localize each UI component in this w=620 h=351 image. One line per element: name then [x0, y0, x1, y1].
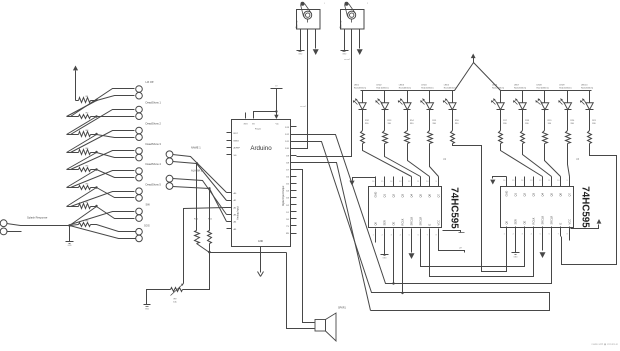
wire 5V to Vin supply bracket	[254, 112, 277, 119]
svg-text:LED2: LED2	[376, 85, 382, 87]
svg-text:E: E	[427, 224, 431, 226]
svg-text:4: 4	[400, 235, 401, 237]
svg-text:Q5: Q5	[418, 193, 422, 197]
U3 bottom pin 8	[569, 227, 571, 237]
svg-text:3: 3	[522, 234, 523, 236]
wire node 5 to switch 5	[97, 170, 135, 178]
servo SERVO1 GND wire	[300, 29, 302, 51]
svg-text:9: 9	[436, 181, 437, 183]
ground arduino GND arrow	[258, 272, 261, 277]
U3 pin8 stub	[569, 237, 571, 241]
wire R11 bottom to junction	[209, 244, 211, 253]
svg-text:NAME 1: NAME 1	[191, 146, 201, 150]
svg-text:Q7: Q7	[436, 193, 440, 197]
wire chain row 1 to row 2	[67, 101, 97, 117]
svg-text:GND: GND	[504, 191, 508, 197]
wire speaker feed from ground bus	[287, 253, 315, 329]
wire ground bus to speaker branch	[210, 252, 287, 254]
svg-text:16: 16	[503, 180, 505, 182]
wire chain row 6 to row 7	[67, 188, 97, 207]
wire node 3 to switch 3	[97, 135, 135, 138]
resistor R7 (ladder row 7)	[79, 204, 91, 209]
svg-text:Lift Off: Lift Off	[146, 80, 154, 84]
wire / node row 3	[91, 134, 97, 136]
svg-text:LED7: LED7	[514, 85, 520, 87]
svg-text:GND: GND	[373, 192, 377, 198]
wire LED5 to resistor	[452, 110, 454, 131]
LED2 diode	[384, 91, 386, 103]
svg-text:Analog Input: Analog Input	[237, 206, 240, 220]
connector switch pair SW	[136, 208, 143, 215]
svg-text:1: 1	[373, 235, 374, 237]
U2 QH net stub	[439, 237, 465, 253]
svg-text:RST: RST	[234, 133, 239, 135]
svg-text:made with ▣ circuito.io: made with ▣ circuito.io	[591, 342, 618, 346]
wire / node row 7	[91, 206, 97, 208]
svg-text:GND: GND	[383, 258, 388, 260]
wire LED6 to U3 pin5	[501, 144, 543, 177]
servo SERVO2 horn	[348, 11, 356, 19]
svg-text:SER: SER	[513, 219, 517, 224]
U2 top pin 15	[384, 177, 386, 187]
svg-text:Red (633nm): Red (633nm)	[354, 87, 366, 89]
svg-text:9: 9	[567, 180, 568, 182]
wire LED9 to resistor	[567, 110, 569, 131]
svg-text:Q1: Q1	[513, 192, 517, 196]
junction ALARM pulldown	[208, 187, 210, 189]
wire Splash Response bottom stub	[7, 231, 22, 233]
Arduino pin D13	[291, 126, 297, 128]
resistor R14 (LED3)	[405, 131, 410, 144]
U3 top pin 10	[560, 177, 562, 187]
svg-text:Q6: Q6	[558, 192, 562, 196]
svg-text:Q7: Q7	[567, 192, 571, 196]
connector switch pair DeadShow 2	[136, 127, 143, 134]
wire switch 6 top	[71, 192, 135, 207]
svg-text:GND: GND	[68, 245, 73, 247]
svg-text:DeadShow 5: DeadShow 5	[146, 182, 162, 186]
U3 top pin 16	[506, 177, 508, 187]
wire servo2 signal to Arduino D9	[297, 29, 352, 157]
U2 bottom pin 2	[384, 229, 386, 239]
svg-text:Q4: Q4	[540, 192, 544, 196]
wire ALARM bottom to Arduino A4	[173, 187, 227, 222]
svg-text:E: E	[558, 223, 562, 225]
svg-text:VCC: VCC	[567, 219, 571, 225]
svg-text:16: 16	[372, 181, 374, 183]
svg-text:74HC595: 74HC595	[449, 187, 460, 229]
wire node 6 to switch 6	[97, 188, 135, 198]
wire LED8 to resistor	[544, 110, 546, 131]
Arduino pin D4	[291, 190, 297, 192]
LED4 diode	[429, 91, 431, 103]
wire servo1 signal to Arduino D10	[297, 29, 308, 149]
svg-text:RCLK: RCLK	[531, 217, 535, 224]
Arduino pin RST	[227, 132, 232, 134]
U3 top pin 12	[542, 177, 544, 187]
svg-text:Red (633nm): Red (633nm)	[581, 87, 593, 89]
svg-text:2: 2	[382, 235, 383, 237]
svg-text:VCC: VCC	[436, 220, 440, 226]
wire speaker signal from Arduino D7	[297, 170, 315, 323]
resistor R12 (LED1)	[361, 131, 365, 144]
svg-text:SRCLR: SRCLR	[549, 216, 553, 225]
U3 top pin 15	[515, 177, 517, 187]
svg-text:Arduino: Arduino	[250, 145, 272, 152]
svg-text:Q3: Q3	[531, 192, 535, 196]
potentiometer R9	[171, 288, 183, 292]
Arduino pin D1	[291, 211, 297, 213]
shift register U2 74HC595 body	[369, 187, 442, 228]
servo SERVO1 body	[297, 10, 321, 30]
svg-text:LED6: LED6	[492, 85, 498, 87]
wire bus 276 clock	[430, 237, 534, 277]
LED1 diode	[362, 91, 364, 103]
wire ALARM top to Arduino A3	[173, 179, 227, 215]
svg-text:5: 5	[409, 235, 410, 237]
U3 top pin 14	[524, 177, 526, 187]
servo SERVO1 VCC wire arrow	[315, 29, 317, 49]
wire LED10 right loop to U3 pin7 bottom	[562, 144, 617, 265]
speaker SPKR1	[315, 320, 326, 332]
svg-text:6: 6	[418, 235, 419, 237]
svg-text:10: 10	[557, 180, 559, 182]
resistor R8 (ladder row 8)	[79, 223, 91, 227]
wire R8 right to SOS switch top	[91, 225, 136, 232]
Arduino pin A1	[227, 200, 232, 202]
U3 bottom pin 5	[542, 227, 544, 237]
LED5 diode	[452, 91, 454, 103]
svg-text:Q2: Q2	[391, 193, 395, 197]
U2 bottom pin 3	[393, 229, 395, 239]
wire Splash Response to ladder junction	[7, 224, 70, 226]
svg-text:RCLK: RCLK	[400, 218, 404, 225]
svg-text:14: 14	[521, 180, 523, 182]
ground ladder	[69, 226, 71, 242]
wire pot wiper to Arduino A2	[184, 208, 227, 284]
Arduino pin RX	[291, 233, 297, 235]
svg-text:Q0: Q0	[504, 220, 508, 224]
svg-text:15: 15	[381, 181, 383, 183]
svg-text:7: 7	[558, 234, 559, 236]
U3 VCC right stub	[571, 225, 599, 229]
svg-text:Red (633nm): Red (633nm)	[559, 87, 571, 89]
power VCC bar (Vin supply)	[276, 89, 278, 112]
svg-text:Red (633nm): Red (633nm)	[492, 87, 504, 89]
svg-text:13: 13	[530, 180, 532, 182]
wire chain row 7 to junction	[70, 207, 97, 226]
wire chain row 3 to row 4	[67, 135, 97, 153]
Arduino pin D3	[291, 197, 297, 199]
wire LED anode bus right group	[474, 63, 592, 91]
svg-text:RX: RX	[286, 233, 290, 235]
Arduino pin D9	[291, 155, 297, 157]
U2 top pin 9	[438, 177, 440, 187]
wire U2 pin3 to data rail	[393, 237, 395, 284]
wire bus 267 latch	[421, 237, 525, 267]
svg-text:DeadShow 4: DeadShow 4	[146, 162, 162, 166]
ground U3 pin2	[515, 237, 517, 253]
ground U2 pin2	[384, 237, 386, 255]
svg-text:LED10: LED10	[581, 85, 588, 87]
connector switch pair DeadShow 1	[136, 106, 143, 113]
wire U2 pin4 to clock rail	[402, 237, 404, 293]
resistor R19 (LED8)	[543, 131, 548, 144]
svg-text:5: 5	[540, 234, 541, 236]
svg-text:15: 15	[512, 180, 514, 182]
svg-text:DeadShow 3: DeadShow 3	[146, 142, 162, 146]
connector switch pair DeadShow 5	[136, 188, 143, 195]
U3 top pin 13	[533, 177, 535, 187]
wire LED1 to U2 pin5	[363, 144, 412, 177]
shift register U3 74HC595 body	[501, 187, 574, 228]
wire chain row 2 to row 3	[67, 117, 97, 135]
Arduino 3V3 pin stub	[245, 113, 247, 119]
svg-text:GND: GND	[342, 54, 347, 56]
svg-text:3: 3	[391, 235, 392, 237]
U2 bottom pin 4	[402, 229, 404, 239]
servo SERVO2 VCC wire arrow	[359, 29, 361, 49]
ground potentiometer	[144, 304, 151, 306]
svg-text:Servo: Servo	[295, 20, 299, 28]
wire / node row 1	[91, 100, 97, 102]
svg-text:Q0: Q0	[373, 221, 377, 225]
svg-text:DeadShow 1: DeadShow 1	[146, 101, 162, 105]
wire / node row 2	[91, 116, 97, 118]
servo SERVO2 GND wire	[344, 29, 346, 51]
U2 top pin 14	[393, 177, 395, 187]
wire NAME1 top to Arduino A0	[173, 155, 227, 193]
wire NAME1 bottom to Arduino A1	[173, 162, 227, 201]
connector Splash Response	[0, 220, 7, 227]
Arduino U1 body	[232, 120, 291, 247]
power VCC arrow U3	[493, 177, 507, 179]
U2 bottom pin 7	[429, 229, 431, 239]
wire LED4 to U2 pin8	[430, 144, 439, 177]
svg-text:SOS: SOS	[144, 224, 150, 228]
servo SERVO2 body	[341, 10, 365, 30]
U2 bottom pin 8	[438, 229, 440, 239]
U2 top pin 13	[402, 177, 404, 187]
svg-text:SRCLK: SRCLK	[540, 216, 544, 225]
svg-text:GND: GND	[514, 257, 519, 259]
wire LED2 to resistor	[384, 110, 386, 131]
resistor R15 (LED4)	[428, 131, 433, 144]
wire to resistor R11	[209, 189, 211, 231]
svg-text:LED9: LED9	[559, 85, 565, 87]
svg-text:1: 1	[504, 234, 505, 236]
wire / node row 6	[91, 187, 97, 189]
resistor R4 (ladder row 4)	[79, 150, 91, 155]
Arduino pin D12	[291, 134, 297, 136]
power arrow U2 pin5	[411, 237, 413, 253]
svg-text:Splash Response: Splash Response	[27, 215, 48, 219]
Arduino pin D8	[291, 162, 297, 164]
Arduino pin D11	[291, 141, 297, 143]
svg-text:Q2: Q2	[522, 192, 526, 196]
LED8 diode	[544, 91, 546, 103]
junction node bottom of ladder	[68, 224, 71, 227]
servo SERVO1 horn	[304, 11, 312, 19]
wire / node row 4	[91, 152, 97, 154]
svg-text:servo2: servo2	[344, 59, 351, 61]
wire switch 7 top	[71, 212, 135, 225]
Arduino pin A.REF	[227, 147, 232, 149]
Arduino pin SS	[227, 154, 232, 156]
Arduino GND pin wire	[260, 247, 262, 273]
U3 bottom pin 2	[515, 227, 517, 237]
svg-text:Q3: Q3	[400, 193, 404, 197]
wire LED3 to U2 pin7	[408, 144, 430, 177]
connector switch pair SOS	[136, 228, 143, 235]
svg-text:7: 7	[427, 235, 428, 237]
wire switch 2 top	[71, 110, 135, 135]
svg-text:OE: OE	[391, 221, 395, 225]
U2 top pin 16	[375, 177, 377, 187]
svg-text:LED3: LED3	[399, 85, 405, 87]
wire to resistor R10	[196, 164, 198, 231]
svg-text:4: 4	[531, 234, 532, 236]
wire R8 left to junction	[70, 225, 79, 226]
svg-text:8: 8	[567, 234, 568, 236]
Arduino pin D10	[291, 148, 297, 150]
Arduino pin D0	[291, 218, 297, 220]
resistor R17 (LED6)	[499, 131, 503, 144]
U2 GND side stub	[443, 231, 461, 233]
svg-text:Q4: Q4	[409, 193, 413, 197]
svg-text:11: 11	[417, 181, 419, 183]
resistor R5 (ladder row 5)	[79, 168, 91, 172]
wire switch 1 top	[71, 89, 135, 117]
wire LED4 to resistor	[429, 110, 431, 131]
LED7 diode	[522, 91, 524, 103]
connector ALARM 1	[166, 175, 173, 182]
wire node 1 to switch 1	[97, 96, 135, 101]
wire LED1 to resistor	[362, 110, 364, 131]
LED10 diode	[589, 91, 591, 103]
wire switch 3 top	[71, 131, 135, 153]
svg-text:Red (633nm): Red (633nm)	[537, 87, 549, 89]
wire node 4 to switch 4	[97, 153, 135, 158]
Arduino pin TX	[291, 225, 297, 227]
Arduino pin D2	[291, 204, 297, 206]
Arduino pin A5	[227, 228, 232, 230]
svg-text:OE: OE	[522, 220, 526, 224]
svg-text:Red (633nm): Red (633nm)	[399, 87, 411, 89]
svg-text:GND: GND	[145, 309, 150, 311]
wire LED7 to resistor	[522, 110, 524, 131]
U2 bottom pin 6	[420, 229, 422, 239]
wire switch 5 top	[71, 171, 135, 188]
svg-text:Red (633nm): Red (633nm)	[376, 87, 388, 89]
svg-text:ALARM 1: ALARM 1	[191, 169, 203, 173]
svg-text:12: 12	[539, 180, 541, 182]
wire LED8 to U3 pin7	[545, 144, 561, 177]
svg-text:LED1: LED1	[354, 85, 360, 87]
wire LED6 to resistor	[500, 110, 502, 131]
junction ground bus node	[208, 251, 211, 254]
resistor R18 (LED7)	[521, 131, 525, 144]
svg-text:74HC595: 74HC595	[580, 186, 591, 228]
LED6 diode	[500, 91, 502, 103]
svg-text:12: 12	[408, 181, 410, 183]
svg-text:SW: SW	[146, 203, 151, 207]
wire / node row 5	[91, 169, 97, 171]
wire bus D8 bottom rail	[297, 163, 371, 311]
U2 top pin 11	[420, 177, 422, 187]
svg-text:6: 6	[549, 234, 550, 236]
U3 bottom pin 6	[551, 227, 553, 237]
svg-text:11: 11	[548, 180, 550, 182]
U3 bottom pin 7	[560, 227, 562, 237]
Arduino pin A2	[227, 207, 232, 209]
wire ladder top to R1	[76, 100, 79, 102]
Arduino pin D5	[291, 183, 297, 185]
wire bus D11 clock rail	[297, 142, 550, 311]
svg-text:Red (633nm): Red (633nm)	[421, 87, 433, 89]
svg-text:DeadShow 2: DeadShow 2	[146, 122, 162, 126]
resistor R20 (LED9)	[566, 131, 571, 144]
wire LED3 to resistor	[407, 110, 409, 131]
svg-text:Q5: Q5	[549, 192, 553, 196]
svg-text:Servo: Servo	[339, 20, 343, 28]
svg-text:10: 10	[426, 181, 428, 183]
resistor R10 pulldown	[195, 231, 200, 244]
wire LED9 to U3 pin8	[568, 144, 570, 177]
power VCC arrow (ladder supply)	[75, 71, 77, 101]
junction NAME1 pulldown	[196, 162, 198, 164]
power VCC arrow U2	[353, 177, 376, 181]
wire bus D12 data rail	[297, 135, 552, 284]
svg-text:A.REF: A.REF	[234, 147, 241, 150]
svg-text:GND: GND	[258, 240, 264, 243]
wire junction to SOS switch bottom	[70, 226, 136, 239]
svg-text:GND: GND	[298, 54, 303, 56]
Arduino pin A3	[227, 214, 232, 216]
resistor R13 (LED2)	[383, 131, 388, 144]
wire LED2 to U2 pin6	[385, 144, 421, 177]
svg-text:Digital Input/Output: Digital Input/Output	[282, 185, 285, 206]
U3 bottom pin 4	[533, 227, 535, 237]
svg-text:SER: SER	[382, 220, 386, 225]
LED9 diode	[567, 91, 569, 103]
resistor R2 (ladder row 2)	[79, 115, 91, 119]
U2 pin1 stub	[375, 237, 377, 243]
resistor R21 (LED10)	[588, 131, 592, 144]
svg-text:8: 8	[436, 235, 437, 237]
wire switch 4 top	[71, 151, 135, 170]
svg-text:LED8: LED8	[537, 85, 543, 87]
resistor R1 (ladder row 1)	[79, 98, 91, 103]
connector switch pair DeadShow 4	[136, 168, 143, 175]
svg-text:14: 14	[390, 181, 392, 183]
svg-text:Red (633nm): Red (633nm)	[444, 87, 456, 89]
connector switch pair DeadShow 3	[136, 148, 143, 155]
wire LED5 loop to U3 pin1	[453, 144, 507, 272]
resistor R11 pulldown	[208, 231, 212, 244]
Arduino pin MISO	[227, 140, 232, 142]
U2 top pin 10	[429, 177, 431, 187]
power arrow U3 pin5	[542, 237, 544, 251]
wire node 7 to switch 7	[97, 207, 135, 219]
wire LED anode bus left group	[361, 63, 474, 91]
resistor R3 (ladder row 3)	[79, 132, 91, 137]
svg-text:SPKR1: SPKR1	[338, 307, 347, 310]
svg-text:Q1: Q1	[382, 193, 386, 197]
svg-text:servo1: servo1	[300, 106, 307, 108]
Arduino pin A0	[227, 192, 232, 194]
svg-text:LED4: LED4	[421, 85, 427, 87]
